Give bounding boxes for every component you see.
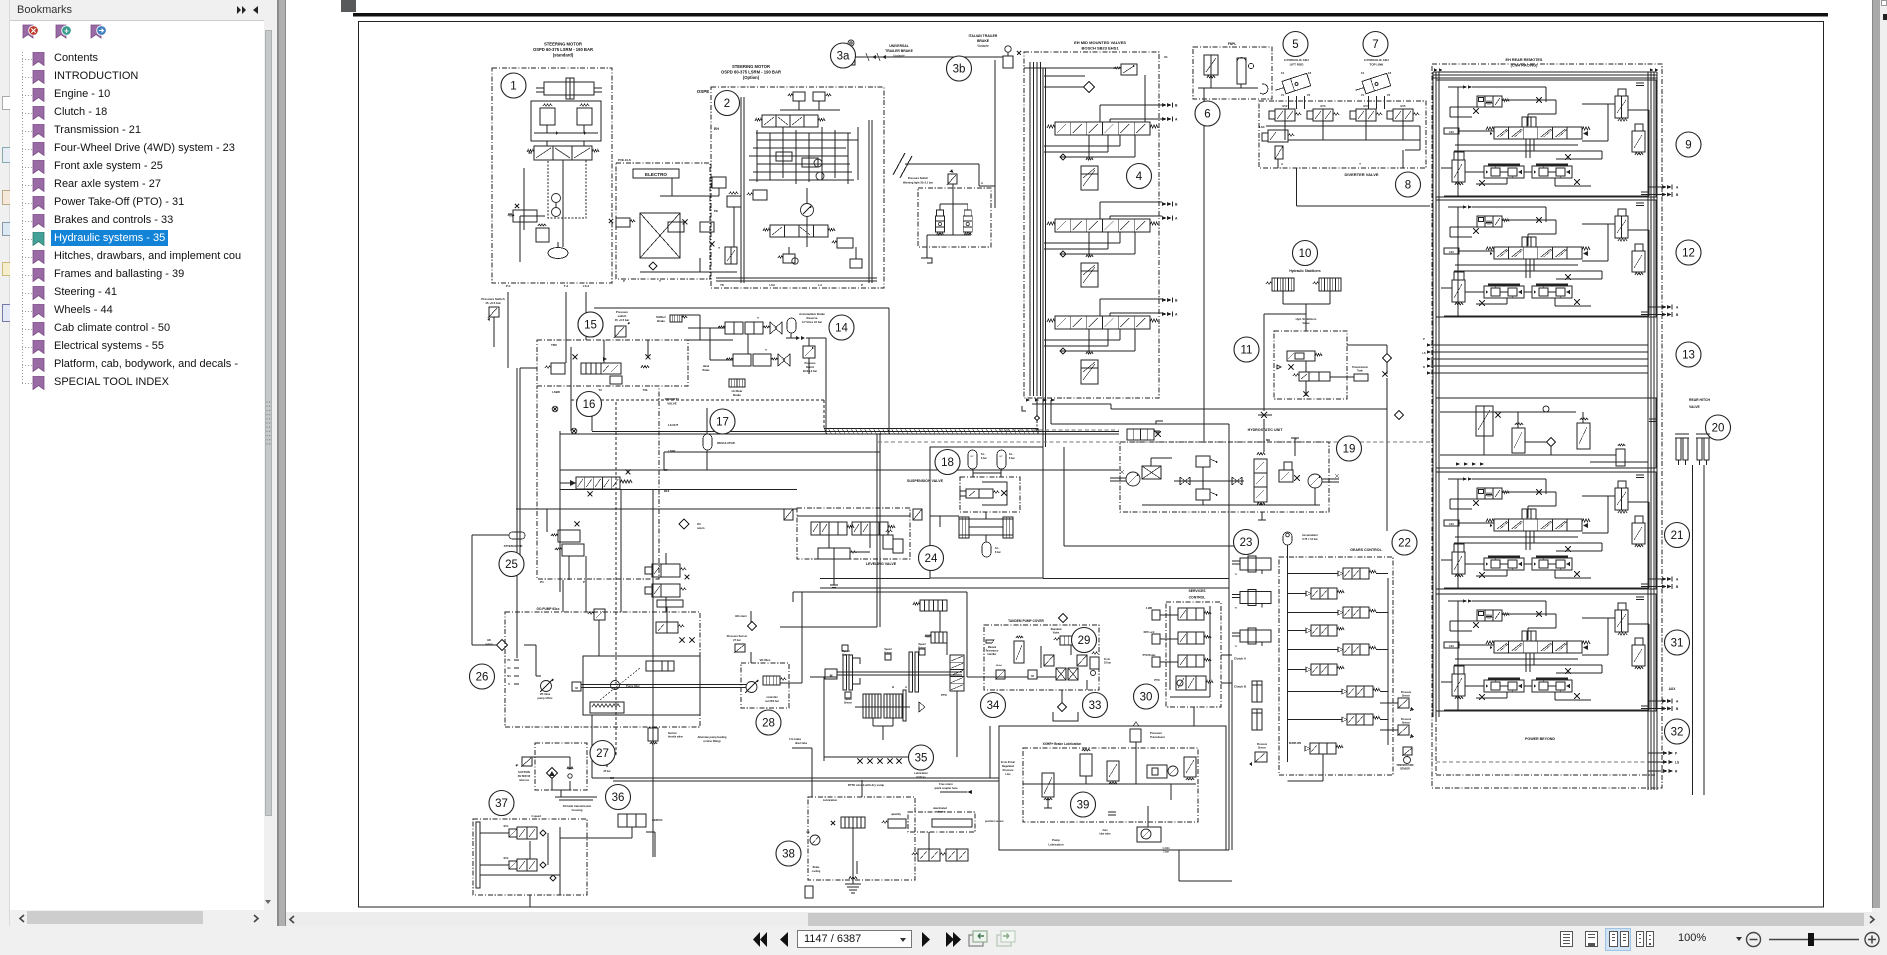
svg-text:W.def: W.def: [996, 665, 1002, 667]
svg-text:T: T: [1359, 162, 1361, 166]
svg-text:24: 24: [925, 553, 938, 565]
svg-text:Brake: Brake: [733, 393, 741, 397]
svg-text:LSV: LSV: [1449, 644, 1454, 648]
svg-text:17: 17: [716, 417, 729, 429]
svg-text:33 bar: 33 bar: [1104, 662, 1111, 665]
svg-text:CONTROL: CONTROL: [1189, 596, 1206, 600]
svg-text:B: B: [1175, 299, 1178, 303]
svg-text:BOSCH SB23 EHS1: BOSCH SB23 EHS1: [1081, 46, 1119, 51]
svg-text:0.7: 0.7: [970, 456, 974, 458]
svg-text:LS: LS: [1422, 351, 1426, 355]
svg-text:8 bar: 8 bar: [995, 551, 1001, 554]
svg-text:LSBR: LSBR: [552, 390, 560, 394]
svg-text:microns: microns: [519, 778, 530, 782]
svg-text:T: T: [718, 246, 720, 250]
svg-text:Auto: Auto: [1102, 829, 1108, 832]
svg-text:B: B: [1175, 203, 1178, 207]
svg-text:SUSPENSION VALVE: SUSPENSION VALVE: [907, 479, 944, 483]
svg-text:Sensor: Sensor: [1258, 747, 1266, 750]
svg-text:Y1: Y1: [1235, 608, 1238, 610]
svg-text:V2: V2: [1307, 93, 1311, 97]
svg-text:Sensor: Sensor: [1402, 695, 1410, 698]
svg-text:A: A: [1676, 700, 1679, 704]
svg-text:Alternate pump feeding: Alternate pump feeding: [698, 735, 727, 739]
svg-text:V1: V1: [1281, 93, 1285, 97]
svg-text:21: 21: [1671, 530, 1684, 542]
svg-text:quantity: quantity: [891, 813, 901, 816]
svg-text:25: 25: [505, 559, 518, 571]
svg-text:9: 9: [1685, 140, 1691, 152]
svg-text:AUX: AUX: [1669, 687, 1677, 691]
svg-text:3a: 3a: [837, 51, 850, 63]
svg-text:EV5: EV5: [1401, 104, 1406, 108]
svg-text:C1: C1: [1281, 71, 1285, 75]
svg-text:T3: T3: [598, 388, 602, 392]
svg-text:T3b: T3b: [643, 388, 648, 392]
svg-text:VALVE: VALVE: [667, 402, 677, 406]
svg-text:Variante: Variante: [977, 44, 989, 48]
svg-text:R: R: [1423, 365, 1425, 369]
svg-text:S: S: [508, 683, 510, 686]
svg-text:lube valve: lube valve: [1099, 834, 1111, 836]
svg-text:EV1: EV1: [504, 825, 509, 828]
svg-text:23: 23: [1240, 537, 1253, 549]
svg-text:M1: M1: [507, 675, 511, 678]
svg-text:B: B: [1676, 313, 1679, 317]
svg-text:2: 2: [724, 98, 730, 110]
svg-text:Y1: Y1: [1235, 646, 1238, 648]
svg-text:G1: G1: [507, 667, 511, 670]
svg-text:Diff Lock: Diff Lock: [1144, 631, 1155, 634]
svg-text:GEARS CONTROL: GEARS CONTROL: [1350, 548, 1382, 552]
svg-text:V1: V1: [1361, 93, 1365, 97]
svg-text:return: return: [485, 643, 493, 646]
svg-text:B: B: [1175, 104, 1178, 108]
svg-text:LS d: LS d: [583, 284, 590, 288]
svg-text:20: 20: [1712, 423, 1725, 435]
svg-text:Accumulator: Accumulator: [1302, 533, 1318, 537]
svg-text:TK: TK: [720, 283, 724, 287]
svg-text:28: 28: [762, 718, 775, 730]
svg-text:38: 38: [782, 849, 795, 861]
svg-text:MB: MB: [1266, 438, 1270, 442]
svg-text:26: 26: [476, 672, 489, 684]
svg-text:V2: V2: [1387, 93, 1391, 97]
svg-text:35: 35: [915, 753, 928, 765]
svg-text:27 bar: 27 bar: [733, 638, 741, 642]
svg-text:(Option): (Option): [743, 75, 760, 80]
svg-text:M: M: [575, 686, 578, 690]
svg-text:33: 33: [1089, 700, 1102, 712]
svg-text:Brake: Brake: [813, 866, 820, 869]
svg-text:actuator: actuator: [935, 811, 945, 814]
svg-text:TOP LINK: TOP LINK: [1370, 63, 1385, 67]
svg-text:PTO: PTO: [1154, 678, 1159, 682]
svg-text:12: 12: [1682, 248, 1695, 260]
svg-text:Brake: Brake: [657, 319, 665, 323]
svg-text:1.4 l/m: 1.4 l/m: [1162, 847, 1169, 850]
svg-text:Switch: Switch: [806, 365, 815, 369]
svg-text:cooling: cooling: [812, 870, 821, 873]
svg-text:5: 5: [1292, 39, 1298, 51]
svg-text:A: A: [1175, 313, 1178, 317]
svg-text:PVE.CLS: PVE.CLS: [618, 158, 631, 162]
svg-text:4: 4: [1136, 171, 1143, 183]
svg-text:Lubrication: Lubrication: [1048, 843, 1064, 847]
svg-text:OSPD 60-375 LSRM - 190 BAR: OSPD 60-375 LSRM - 190 BAR: [533, 47, 593, 52]
svg-text:M: M: [1031, 674, 1034, 678]
svg-text:P d: P d: [506, 284, 511, 288]
svg-text:34: 34: [987, 700, 1000, 712]
svg-text:30: 30: [1140, 692, 1153, 704]
svg-text:EV3: EV3: [1321, 104, 1326, 108]
svg-text:✕: ✕: [30, 26, 37, 35]
svg-text:13: 13: [1682, 350, 1695, 362]
svg-text:quick coupler here: quick coupler here: [934, 786, 958, 790]
svg-text:PTO Brake: PTO Brake: [1143, 654, 1156, 657]
svg-text:position sensor: position sensor: [985, 820, 1004, 823]
svg-text:Warning light 10+2.1 bar: Warning light 10+2.1 bar: [903, 181, 933, 185]
svg-text:Orifices: Orifices: [916, 776, 926, 779]
svg-text:27: 27: [596, 748, 609, 760]
svg-text:Hydraulic Stabilizers: Hydraulic Stabilizers: [1289, 269, 1321, 273]
svg-text:11: 11: [1241, 345, 1253, 357]
svg-text:15: 15: [584, 320, 597, 332]
svg-text:Hand: Hand: [703, 365, 710, 368]
svg-text:7: 7: [1372, 39, 1378, 51]
svg-text:LSC: LSC: [1259, 125, 1265, 129]
svg-text:36: 36: [612, 792, 625, 804]
svg-text:A: A: [1676, 186, 1679, 190]
svg-text:VALVE: VALVE: [1689, 405, 1701, 409]
svg-text:S.L.: S.L.: [995, 547, 1000, 550]
svg-text:A: A: [1175, 217, 1178, 221]
svg-text:Pressure Switch: Pressure Switch: [908, 176, 929, 180]
svg-text:P: P: [1423, 337, 1425, 341]
svg-text:8: 8: [1405, 180, 1411, 192]
svg-text:HYDRAULIC ADJ: HYDRAULIC ADJ: [1284, 58, 1309, 62]
svg-text:Tank: Tank: [1357, 370, 1363, 373]
svg-text:1: 1: [510, 81, 516, 93]
svg-text:ATTENUATOR: ATTENUATOR: [504, 544, 523, 548]
svg-text:EV4: EV4: [1364, 104, 1369, 108]
svg-text:HYDRAULIC ADJ: HYDRAULIC ADJ: [1364, 58, 1389, 62]
svg-text:FILTER 60: FILTER 60: [518, 774, 531, 778]
svg-text:0.7: 0.7: [999, 456, 1003, 458]
svg-text:90 BA,2 bar: 90 BA,2 bar: [803, 369, 817, 373]
svg-text:EH REAR REMOTES: EH REAR REMOTES: [1506, 58, 1543, 62]
svg-text:A: A: [981, 181, 983, 185]
svg-text:P1: P1: [507, 659, 511, 662]
svg-text:B: B: [1676, 707, 1679, 711]
svg-text:C1: C1: [1361, 71, 1365, 75]
svg-text:Y1: Y1: [1235, 574, 1238, 576]
svg-text:GO.PUMP 63cc: GO.PUMP 63cc: [537, 607, 560, 611]
svg-text:VD 63cc: VD 63cc: [760, 658, 771, 662]
svg-text:ELECTRO: ELECTRO: [645, 172, 667, 177]
svg-text:M: M: [830, 674, 833, 678]
svg-text:EH MID MOUNTED VALVES: EH MID MOUNTED VALVES: [1074, 40, 1126, 45]
svg-text:B: B: [892, 685, 894, 689]
svg-text:B: B: [1676, 193, 1679, 197]
svg-text:A: A: [905, 685, 907, 689]
svg-text:Pressure: Pressure: [804, 361, 816, 365]
svg-text:A: A: [1676, 578, 1679, 582]
svg-text:SENSOR: SENSOR: [1400, 769, 1410, 771]
svg-text:Free return: Free return: [939, 782, 953, 786]
svg-text:Sensor: Sensor: [842, 654, 850, 657]
svg-text:37: 37: [495, 798, 508, 810]
svg-text:HYDROSTATIC UNIT: HYDROSTATIC UNIT: [1248, 428, 1284, 432]
svg-text:4 WD: 4 WD: [1146, 607, 1152, 610]
svg-text:32: 32: [1671, 727, 1684, 739]
svg-text:18: 18: [941, 457, 954, 469]
svg-text:T: T: [765, 348, 767, 352]
svg-text:4 speed: 4 speed: [531, 814, 541, 818]
svg-text:EV2: EV2: [1283, 104, 1288, 108]
svg-text:controller: controller: [766, 696, 778, 699]
svg-text:Pump 63cc: Pump 63cc: [626, 684, 640, 688]
svg-text:8 bar: 8 bar: [1009, 457, 1015, 460]
svg-text:6: 6: [1204, 109, 1210, 121]
svg-text:From 33 bar: From 33 bar: [1001, 761, 1015, 764]
svg-text:VD Vane: VD Vane: [540, 692, 551, 696]
svg-text:DIVERTER VALVE: DIVERTER VALVE: [1344, 172, 1378, 177]
svg-text:T: T: [1295, 437, 1297, 441]
svg-text:8 bar: 8 bar: [981, 457, 987, 460]
svg-text:39: 39: [1077, 800, 1090, 812]
svg-text:Valve: Valve: [1053, 632, 1060, 635]
svg-text:TEMPERATURE: TEMPERATURE: [1396, 764, 1414, 767]
svg-text:Ld: Ld: [818, 283, 822, 287]
svg-text:P1: P1: [540, 580, 544, 584]
svg-text:OSPD 60-375 LSRM - 190 BAR: OSPD 60-375 LSRM - 190 BAR: [721, 70, 781, 75]
svg-text:SERVICES: SERVICES: [1188, 589, 1206, 593]
svg-text:direct lube: direct lube: [795, 742, 808, 745]
svg-text:TRAILER BRAKE: TRAILER BRAKE: [885, 49, 913, 53]
svg-text:S.L.: S.L.: [981, 453, 986, 456]
svg-text:Lubrication: Lubrication: [914, 772, 928, 775]
svg-text:EH: EH: [714, 127, 719, 131]
svg-text:BRAKE: BRAKE: [977, 39, 990, 43]
svg-text:29: 29: [1078, 635, 1091, 647]
svg-text:A: A: [1175, 118, 1178, 122]
svg-text:(cruise filling): (cruise filling): [703, 739, 720, 743]
svg-text:Pressure Sensor: Pressure Sensor: [727, 634, 748, 638]
svg-text:Sensor: Sensor: [844, 702, 852, 705]
svg-text:15 +0.5 bar: 15 +0.5 bar: [485, 301, 501, 305]
svg-text:3b: 3b: [953, 64, 966, 76]
svg-text:REGULATOR: REGULATOR: [717, 441, 734, 445]
svg-text:OSPE: OSPE: [697, 89, 710, 94]
svg-text:22: 22: [1398, 538, 1411, 550]
svg-text:A: A: [1676, 306, 1679, 310]
svg-text:PTO: PTO: [941, 693, 948, 697]
svg-text:Pump: Pump: [1052, 838, 1060, 842]
svg-text:R: R: [1675, 770, 1678, 774]
svg-text:Pressure: Pressure: [1003, 769, 1014, 772]
svg-text:14: 14: [835, 323, 848, 335]
svg-text:0.75 l. 10 bar: 0.75 l. 10 bar: [1302, 537, 1318, 541]
svg-text:FPTO circuit with dry sump: FPTO circuit with dry sump: [848, 783, 885, 787]
svg-text:Regulated: Regulated: [1002, 765, 1015, 768]
svg-text:Line: Line: [1005, 773, 1011, 776]
svg-text:return: return: [697, 526, 705, 530]
svg-text:X1: X1: [1164, 55, 1168, 59]
svg-text:Lubrication: Lubrication: [823, 798, 838, 802]
svg-text:pump 145cc: pump 145cc: [538, 696, 554, 700]
svg-text:ITALIAN TRAILER: ITALIAN TRAILER: [969, 34, 998, 38]
svg-text:P: P: [583, 580, 585, 584]
svg-text:LEVELING VALVE: LEVELING VALVE: [866, 562, 897, 566]
svg-text:S.L.: S.L.: [1009, 453, 1014, 456]
svg-text:45 +0.5 bar: 45 +0.5 bar: [615, 318, 630, 322]
svg-text:SUCTION: SUCTION: [518, 770, 530, 774]
svg-text:4 hr brake: 4 hr brake: [789, 738, 802, 741]
svg-text:T: T: [757, 316, 759, 320]
svg-text:Sensor: Sensor: [1402, 722, 1410, 725]
svg-text:B: B: [1676, 585, 1679, 589]
svg-text:throttle valve: throttle valve: [668, 736, 684, 739]
svg-text:C2: C2: [1388, 71, 1392, 75]
svg-text:FNPL: FNPL: [1228, 42, 1236, 46]
svg-text:31: 31: [1671, 638, 1684, 650]
svg-text:LS: LS: [1675, 761, 1679, 765]
svg-text:Transducer: Transducer: [1150, 735, 1166, 739]
svg-text:C2: C2: [1308, 71, 1312, 75]
svg-text:P: P: [623, 279, 625, 283]
svg-text:housing: housing: [572, 808, 583, 812]
svg-text:DUMP-WS: DUMP-WS: [1289, 742, 1302, 745]
svg-text:1 bar: 1 bar: [1163, 852, 1169, 854]
svg-text:Brake: Brake: [703, 369, 711, 372]
svg-text:STEERING MOTOR: STEERING MOTOR: [732, 64, 770, 69]
svg-text:EV2: EV2: [504, 857, 509, 860]
svg-text:UNIVERSAL: UNIVERSAL: [889, 44, 909, 48]
svg-text:LSV: LSV: [1449, 250, 1454, 254]
svg-text:4.7 litres 10 bar: 4.7 litres 10 bar: [802, 320, 823, 324]
svg-text:Lm: Lm: [806, 831, 810, 834]
svg-text:LS.OUT: LS.OUT: [668, 423, 679, 427]
svg-text:XXHR+ Brake Lubrication: XXHR+ Brake Lubrication: [1043, 742, 1082, 746]
svg-text:Oil: Oil: [697, 522, 701, 526]
svg-text:LIFT ROD: LIFT ROD: [1290, 63, 1305, 67]
svg-text:Clutch A: Clutch A: [1234, 657, 1247, 661]
svg-text:REAR HITCH: REAR HITCH: [1689, 398, 1710, 402]
svg-text:(standard): (standard): [553, 53, 574, 58]
svg-text:lubrifier: lubrifier: [988, 653, 997, 656]
svg-text:25 bar: 25 bar: [603, 770, 610, 773]
svg-text:TANDEM PUMP COVER: TANDEM PUMP COVER: [1008, 619, 1044, 623]
svg-text:LSV: LSV: [1449, 522, 1454, 526]
svg-text:PRIORITY: PRIORITY: [665, 397, 679, 401]
svg-text:10: 10: [1299, 248, 1312, 260]
svg-text:P: P: [861, 283, 863, 287]
svg-text:POWER BEYOND: POWER BEYOND: [1525, 737, 1555, 741]
svg-text:19: 19: [1343, 444, 1356, 456]
svg-text:LSV: LSV: [1449, 130, 1454, 134]
svg-text:PE: PE: [714, 209, 718, 213]
svg-text:SERVO: SERVO: [652, 818, 663, 822]
svg-text:HD: HD: [487, 639, 491, 642]
svg-text:LSd: LSd: [769, 283, 775, 287]
svg-text:T: T: [659, 279, 661, 283]
svg-text:A: A: [1281, 162, 1283, 166]
svg-text:TRV: TRV: [551, 343, 557, 347]
svg-text:16: 16: [583, 399, 596, 411]
svg-text:+: +: [64, 26, 69, 35]
svg-text:P: P: [1675, 752, 1678, 756]
svg-text:Variante: Variante: [893, 54, 905, 58]
svg-text:HD return: HD return: [735, 615, 747, 618]
svg-text:Clutch B: Clutch B: [1234, 685, 1247, 689]
svg-text:T d: T d: [564, 284, 569, 288]
svg-text:STEERING MOTOR: STEERING MOTOR: [544, 42, 582, 47]
svg-text:set 25/2 bar: set 25/2 bar: [765, 700, 779, 703]
